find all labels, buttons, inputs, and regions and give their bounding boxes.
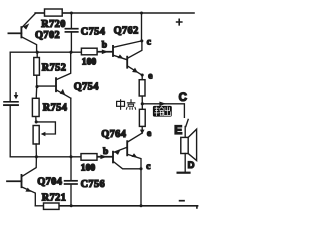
wire switch contact to earphone jack <box>186 119 188 126</box>
resistor R721 <box>35 203 59 209</box>
svg-text:100: 100 <box>81 163 96 174</box>
wire lower bus (base line of Q764) <box>10 156 81 158</box>
svg-text:R720: R720 <box>41 19 65 30</box>
transistor Q704 (NPN input, bottom-left) <box>7 157 36 206</box>
svg-text:e: e <box>147 129 151 139</box>
resistor RE lower (emitter resistor of Q764) <box>139 104 145 134</box>
node junction C754 / Q754 collector <box>69 51 72 54</box>
wire Q762 collector to top rail <box>141 13 143 41</box>
svg-text:E: E <box>174 123 182 137</box>
resistor 100 (lower base resistor) <box>81 154 97 161</box>
svg-text:Q704: Q704 <box>37 176 62 187</box>
node Q764 collector junction <box>139 167 142 170</box>
node junction C756 / Q754 emitter <box>69 155 72 158</box>
wire arrow into Q762 base <box>102 50 109 55</box>
speaker BL <box>181 127 197 173</box>
resistor RE upper (emitter resistor of Q762) <box>139 75 145 104</box>
svg-text:100: 100 <box>82 56 97 67</box>
node junction pot-bottom / Q704 collector <box>35 155 38 158</box>
svg-text:R721: R721 <box>42 192 66 203</box>
node junction R754 / wiper loop <box>35 120 38 123</box>
svg-text:R754: R754 <box>43 103 67 114</box>
node bottom rail / Q764 collector junction <box>140 204 143 207</box>
label - supply <box>180 200 184 202</box>
svg-text:Q764: Q764 <box>101 129 126 140</box>
svg-text:c: c <box>146 162 150 172</box>
node e of Q762 <box>141 73 144 76</box>
svg-text:C756: C756 <box>81 179 105 190</box>
node c of Q762 <box>140 39 143 42</box>
svg-text:D: D <box>188 160 195 171</box>
svg-text:Q754: Q754 <box>74 82 99 93</box>
label + supply <box>177 19 182 25</box>
transistor Q754 (NPN driver, middle-left) <box>37 52 71 157</box>
svg-text:R752: R752 <box>42 62 66 73</box>
wire top supply rail <box>35 12 194 14</box>
resistor 100 (upper base resistor) <box>81 48 97 55</box>
label 输出 (output, white on black) <box>153 106 172 117</box>
transistor Q762 (NPN output darlington T1) <box>113 41 142 60</box>
node bottom rail / C756 junction <box>70 204 73 207</box>
resistor R752 <box>34 52 40 86</box>
wire arrow into Q764 base <box>100 155 107 160</box>
capacitor C700 electrolytic (left, unlabeled) <box>4 102 18 105</box>
potentiometer RP (preset, left column) <box>33 122 55 157</box>
svg-text:b: b <box>103 147 108 157</box>
wire upper bus (base line of Q762) <box>10 51 81 53</box>
ground (speaker return) <box>178 172 190 174</box>
wire left vertical branch <box>9 52 11 157</box>
svg-text:Q762: Q762 <box>114 26 139 37</box>
wire output line from midpoint <box>142 102 184 118</box>
node junction A (Q702 collector / R752) <box>36 51 39 54</box>
node top rail / C754 junction <box>70 12 73 15</box>
svg-text:C754: C754 <box>81 27 105 38</box>
transistor Q764 (PNP output darlington T1) <box>113 147 141 168</box>
capacitor C756 <box>65 157 77 206</box>
wire current arrow beside left capacitor <box>14 93 19 99</box>
resistor R754 <box>32 87 39 122</box>
label 中点 (hand-drawn glyphs) <box>117 100 136 110</box>
svg-text:c: c <box>147 38 151 48</box>
node top rail / Q762 branch junction <box>140 12 143 15</box>
svg-text:Q702: Q702 <box>35 30 60 41</box>
svg-text:e: e <box>148 71 152 81</box>
transistor Q702 (PNP input, top-left) <box>8 14 36 53</box>
capacitor C754 <box>65 13 77 52</box>
svg-text:C: C <box>179 92 187 104</box>
transistor Q764 (PNP output darlington T2) <box>127 133 142 206</box>
resistor R720 <box>35 9 71 16</box>
wire bottom supply rail <box>59 206 198 208</box>
transistor Q762 (NPN output darlington T2) <box>127 41 142 75</box>
node midpoint (中点) <box>141 102 144 105</box>
node junction B (R752/R754/Q754 base) <box>35 85 38 88</box>
svg-text:b: b <box>102 41 107 51</box>
